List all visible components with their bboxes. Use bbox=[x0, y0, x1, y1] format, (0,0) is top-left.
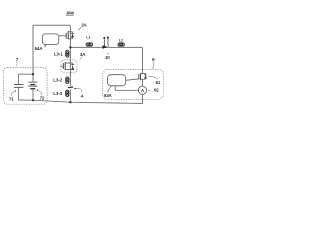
svg-text:10: 10 bbox=[105, 55, 110, 60]
svg-text:2A: 2A bbox=[81, 23, 87, 28]
svg-text:4: 4 bbox=[81, 93, 84, 98]
svg-text:L3-1: L3-1 bbox=[54, 51, 63, 56]
svg-text:63A: 63A bbox=[104, 93, 113, 98]
svg-text:3A: 3A bbox=[80, 52, 86, 57]
svg-text:71: 71 bbox=[9, 96, 14, 101]
svg-text:64A: 64A bbox=[35, 46, 44, 51]
svg-text:72: 72 bbox=[40, 95, 45, 100]
svg-text:L3-3: L3-3 bbox=[53, 91, 62, 96]
svg-text:L3-2: L3-2 bbox=[53, 78, 62, 83]
svg-text:7: 7 bbox=[16, 57, 19, 62]
svg-text:L1: L1 bbox=[86, 36, 90, 40]
svg-text:6: 6 bbox=[152, 57, 155, 62]
svg-text:61: 61 bbox=[156, 80, 161, 85]
svg-text:62: 62 bbox=[154, 88, 159, 93]
svg-text:100A: 100A bbox=[66, 10, 74, 15]
svg-text:L2: L2 bbox=[119, 38, 123, 42]
